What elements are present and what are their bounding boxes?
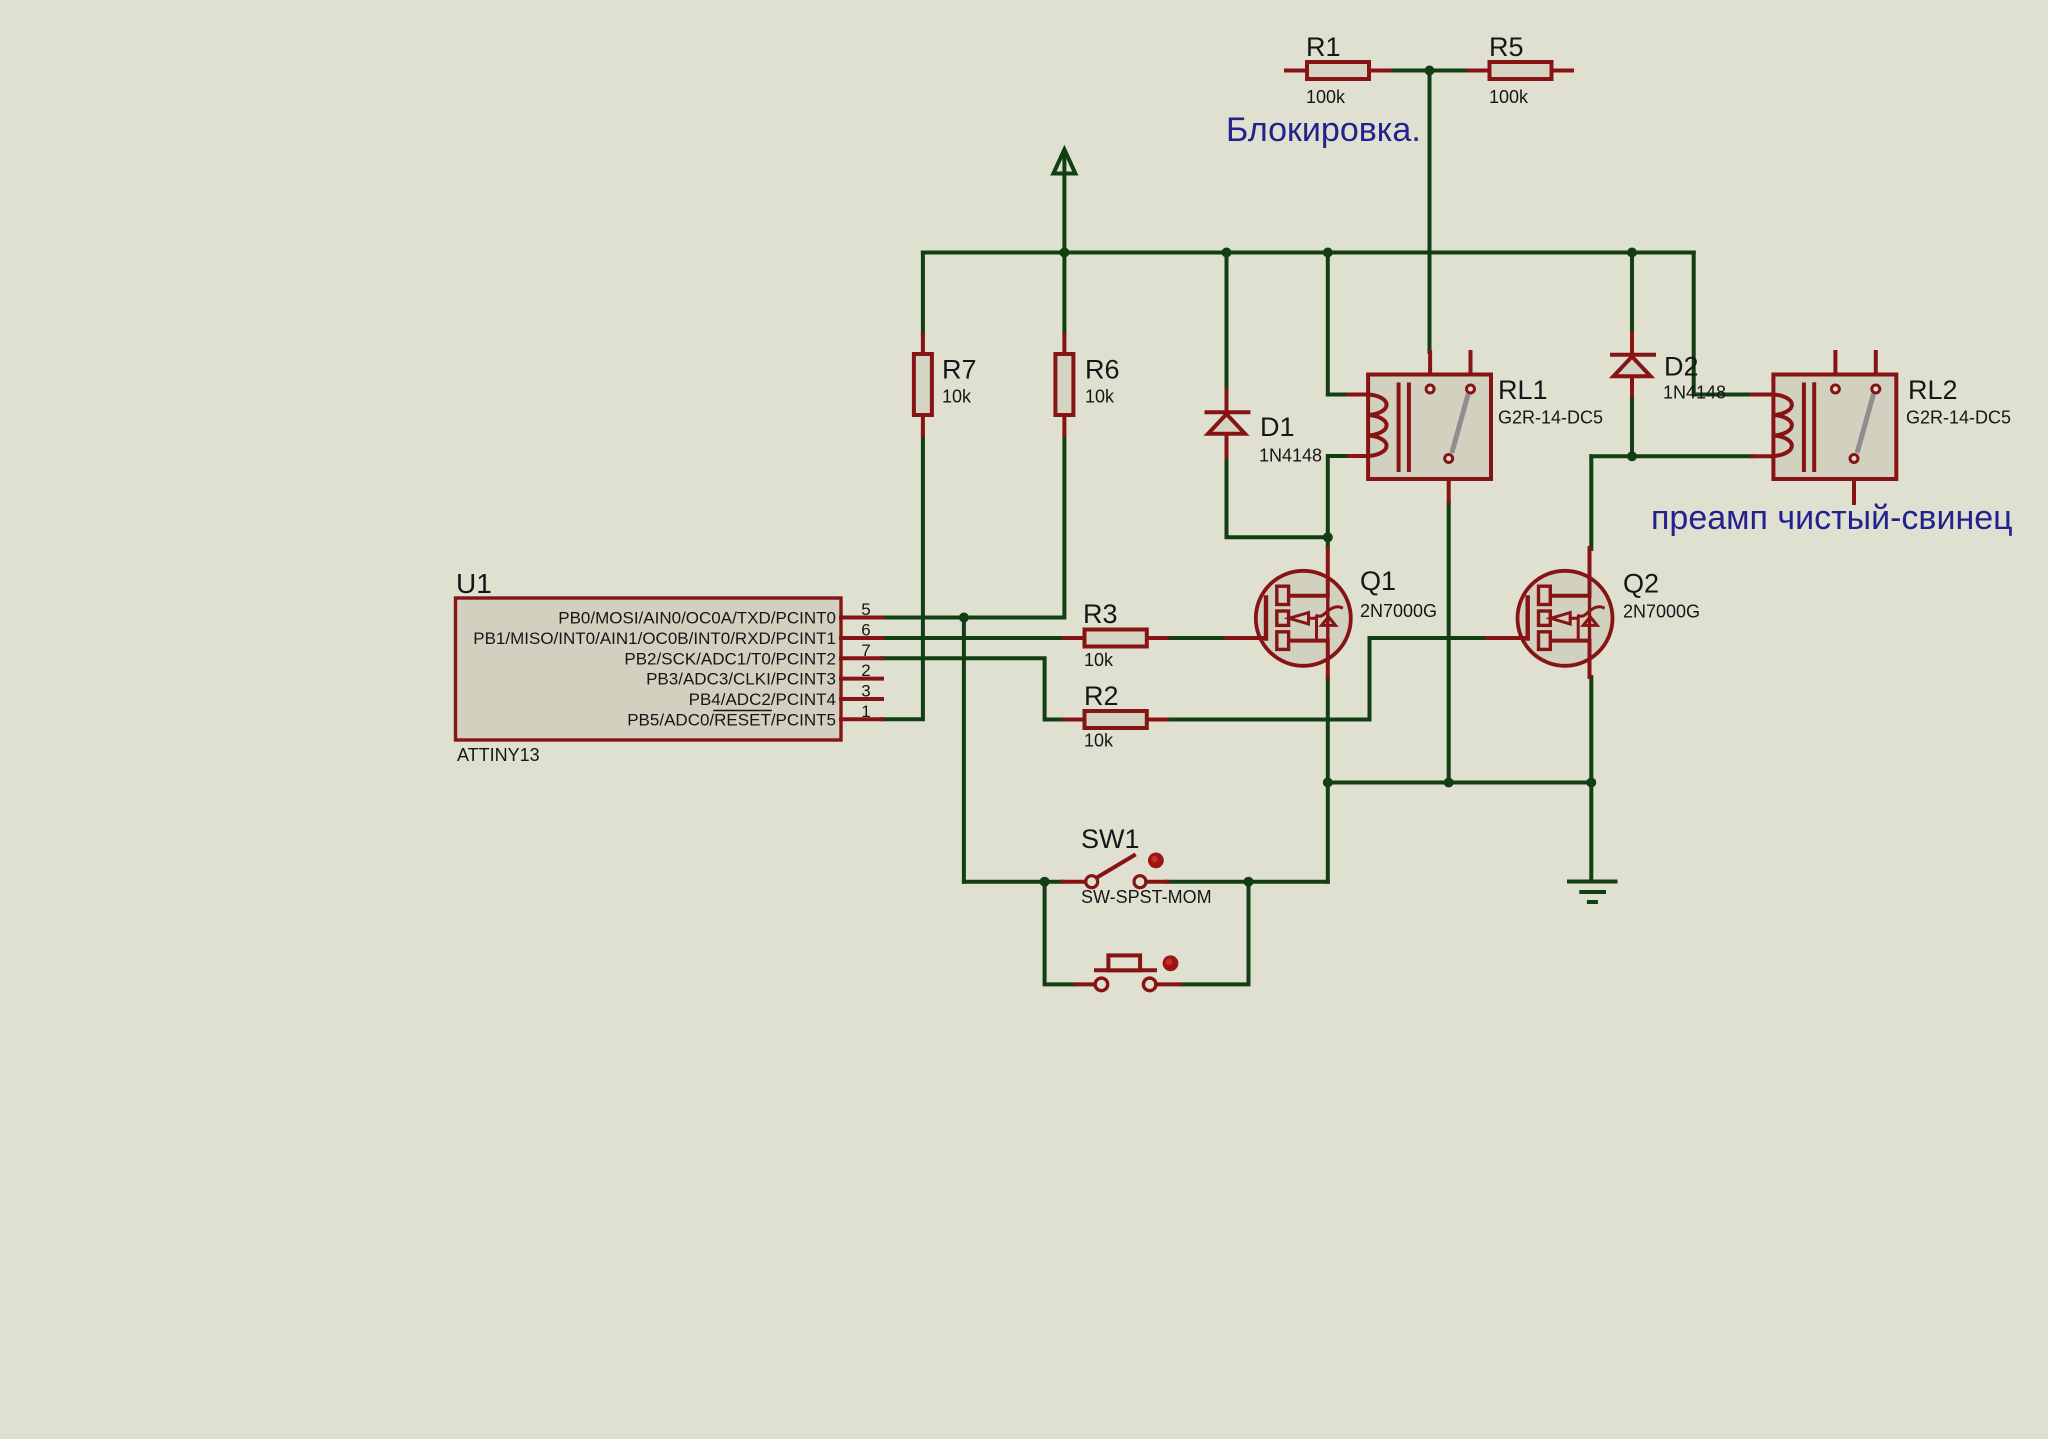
svg-text:10k: 10k: [1085, 387, 1115, 407]
wire: source rail: [1328, 781, 1592, 785]
Q1 drain-source column: [1326, 596, 1329, 641]
wire: bus to R6 top: [1062, 253, 1066, 336]
node bus/power-arrow/R6: [1059, 248, 1069, 258]
transistor Q1: [1226, 548, 1351, 677]
svg-text:5: 5: [861, 600, 870, 619]
svg-text:D2: D2: [1664, 352, 1699, 382]
svg-text:R7: R7: [942, 355, 977, 385]
resistor R5: [1469, 62, 1572, 79]
wire: pin5 node down to SW1: [962, 618, 966, 882]
RL1 coil arcs: [1368, 395, 1386, 457]
wire: R2 to Q2 gate: [1167, 638, 1488, 720]
node R1/R5 junction: [1425, 66, 1435, 76]
resistor R6: [1055, 335, 1073, 435]
Q1 gate pin: [1226, 636, 1266, 640]
resistor R7: [914, 335, 932, 435]
svg-text:PB1/MISO/INT0/AIN1/OC0B/INT0/R: PB1/MISO/INT0/AIN1/OC0B/INT0/RXD/PCINT1: [473, 629, 836, 648]
diode D2: [1612, 333, 1654, 396]
node SW1 left: [1040, 877, 1050, 887]
Q1 channel contacts: [1277, 586, 1289, 649]
RL2 core lines: [1804, 384, 1814, 470]
U1 pin 3 stub: [841, 697, 882, 701]
svg-text:PB3/ADC3/CLKI/PCINT3: PB3/ADC3/CLKI/PCINT3: [646, 670, 836, 689]
push-button plate: [1096, 968, 1155, 972]
wire: push-button right up to SW1 row: [1180, 882, 1249, 985]
ground: [1569, 882, 1616, 903]
U1 pin 1 stub: [841, 717, 882, 721]
svg-text:Блокировка.: Блокировка.: [1226, 111, 1421, 149]
RL1 lever: [1453, 397, 1468, 451]
svg-text:3: 3: [861, 682, 870, 701]
junction dots: [959, 66, 1637, 887]
svg-text:1N4148: 1N4148: [1663, 383, 1726, 403]
svg-text:SW1: SW1: [1081, 824, 1140, 854]
RL1 contact circles: [1426, 385, 1434, 393]
wire: SW1 row right: [1167, 880, 1328, 884]
svg-text:ATTINY13: ATTINY13: [457, 745, 540, 765]
RL2 top pin stubs: [1835, 352, 1875, 375]
RL2 common stub: [1852, 479, 1856, 503]
wire: RL1 coil bottom to Q1 drain node: [1328, 456, 1349, 548]
svg-text:10k: 10k: [1084, 731, 1114, 751]
RL2 coil arcs: [1773, 395, 1791, 457]
svg-text:2N7000G: 2N7000G: [1360, 601, 1437, 621]
U1 pin 6 stub: [841, 636, 882, 640]
svg-text:преамп чистый-свинец: преамп чистый-свинец: [1651, 499, 2013, 537]
svg-text:PB0/MOSI/AIN0/OC0A/TXD/PCINT0: PB0/MOSI/AIN0/OC0A/TXD/PCINT0: [558, 609, 836, 628]
svg-text:SW-SPST-MOM: SW-SPST-MOM: [1081, 887, 1212, 907]
svg-text:RL1: RL1: [1498, 375, 1548, 405]
resistor R1: [1286, 62, 1389, 79]
node bus/RL1 coil: [1323, 248, 1333, 258]
svg-text:G2R-14-DC5: G2R-14-DC5: [1906, 408, 2011, 428]
svg-text:100k: 100k: [1306, 87, 1346, 107]
wire: D2 node down to Q2 drain: [1589, 456, 1593, 549]
svg-text:PB2/SCK/ADC1/T0/PCINT2: PB2/SCK/ADC1/T0/PCINT2: [624, 649, 836, 668]
Q1 gate bar: [1264, 598, 1268, 639]
wire: pin7 to R2: [882, 658, 1065, 719]
RL2 contact circles: [1831, 385, 1839, 393]
Q2 drain-source column: [1588, 596, 1591, 641]
resistor R3: [1065, 630, 1167, 647]
svg-text:RL2: RL2: [1908, 375, 1958, 405]
wire: D2 node to RL2 coil bottom: [1591, 454, 1752, 458]
wire: R7 bottom to pin1: [882, 435, 923, 719]
IC U1 ATTINY13: [456, 598, 883, 740]
Q2 body arrow: [1551, 607, 1604, 641]
RL2 coil leads: [1752, 395, 1773, 457]
Q1 source pin: [1291, 641, 1328, 677]
transistor Q2: [1488, 548, 1613, 677]
wire: R6 bottom to pin5 row: [882, 435, 1064, 618]
svg-text:U1: U1: [456, 568, 492, 599]
svg-text:10k: 10k: [1084, 650, 1114, 670]
wire: Q2 source to ground: [1589, 677, 1593, 882]
U1 pin 5 stub: [841, 616, 882, 620]
wire: bus to D1: [1225, 253, 1229, 391]
node RL1 common / rail: [1444, 778, 1454, 788]
svg-text:2N7000G: 2N7000G: [1623, 602, 1700, 622]
Q2 drain pin: [1552, 548, 1589, 596]
svg-text:PB4/ADC2/PCINT4: PB4/ADC2/PCINT4: [689, 690, 836, 709]
svg-text:G2R-14-DC5: G2R-14-DC5: [1498, 408, 1603, 428]
wire: top VCC bus: [923, 251, 1694, 255]
wire: RL1 common down to rail: [1447, 502, 1451, 783]
svg-text:Q1: Q1: [1360, 566, 1396, 596]
push-button switch: [1076, 955, 1180, 990]
svg-text:R1: R1: [1306, 32, 1341, 62]
node bus/D2: [1627, 248, 1637, 258]
node pin5/SW1 branch: [959, 613, 969, 623]
node Q2 source / rail: [1586, 778, 1596, 788]
Q2 source pin: [1552, 641, 1589, 677]
svg-text:2: 2: [861, 661, 870, 680]
wire: bus to RL1 coil top: [1328, 253, 1349, 395]
Q1 drain pin: [1291, 548, 1328, 596]
wire: SW1 row left: [964, 880, 1063, 884]
node bus/D1: [1222, 248, 1232, 258]
svg-text:7: 7: [861, 641, 870, 660]
RL1 common stub: [1447, 479, 1451, 502]
switch SW1: [1063, 853, 1168, 888]
node Q1 source / rail: [1323, 778, 1333, 788]
RL1 top pin stubs: [1430, 352, 1470, 375]
wire: D1 bottom to Q1 drain node: [1227, 457, 1328, 537]
RL1 coil leads: [1349, 395, 1368, 457]
svg-text:R6: R6: [1085, 355, 1120, 385]
power flag: [1053, 150, 1075, 174]
RL2 lever: [1858, 397, 1873, 451]
svg-text:10k: 10k: [942, 387, 972, 407]
node D1/RL1-coil/Q1-drain: [1323, 532, 1333, 542]
svg-text:100k: 100k: [1489, 87, 1529, 107]
wire: bus to D2: [1630, 253, 1634, 334]
svg-text:1N4148: 1N4148: [1259, 446, 1322, 466]
Q2 body diode: [1583, 617, 1597, 626]
svg-text:R5: R5: [1489, 32, 1524, 62]
SW1 indicator dot: [1148, 853, 1164, 869]
node D2 / RL2 coil / Q2 drain: [1627, 451, 1637, 461]
wire: SW1 node down to push-button: [1045, 882, 1076, 985]
wire: pin6 to R3: [882, 636, 1065, 640]
Q1 body arrow: [1289, 607, 1342, 641]
wire: bus to R7 top: [921, 253, 925, 336]
resistor R2: [1065, 711, 1167, 728]
svg-text:PB5/ADC0/RESET/PCINT5: PB5/ADC0/RESET/PCINT5: [627, 710, 836, 729]
wire: Блокировка net vertical to RL1 coil: [1428, 71, 1432, 353]
wire: power flag stem: [1062, 151, 1066, 253]
wire: Q1 source down to rail: [1326, 677, 1330, 882]
RL1 core lines: [1399, 385, 1409, 471]
wire: bus right end to RL2 coil top: [1694, 253, 1752, 395]
svg-text:R3: R3: [1083, 599, 1118, 629]
node SW1 right: [1244, 877, 1254, 887]
U1 pin 7 stub: [841, 656, 882, 660]
svg-text:R2: R2: [1084, 681, 1119, 711]
Q1 body diode: [1322, 617, 1336, 626]
Q2 gate bar: [1525, 598, 1529, 639]
SW1 lever: [1097, 855, 1134, 877]
Q2 gate pin: [1488, 636, 1528, 640]
relay RL2: [1752, 352, 1896, 503]
svg-text:Q2: Q2: [1623, 569, 1659, 599]
push-button indicator dot: [1163, 955, 1179, 971]
wire R1-R5 middle segment: [1389, 69, 1469, 73]
diode D1: [1207, 391, 1249, 458]
svg-text:1: 1: [861, 702, 870, 721]
U1 pin 2 stub: [841, 677, 882, 681]
relay RL1: [1349, 352, 1491, 502]
wire: D2 bottom node vertical: [1630, 396, 1634, 457]
svg-text:D1: D1: [1260, 412, 1295, 442]
Q2 channel contacts: [1539, 586, 1551, 649]
wire: R3 to Q1 gate: [1167, 636, 1226, 640]
svg-text:6: 6: [861, 621, 870, 640]
